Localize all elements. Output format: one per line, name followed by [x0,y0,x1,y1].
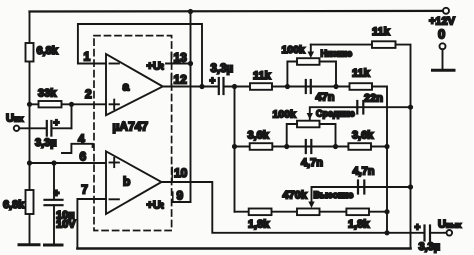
wire: 33k row to op-amp a pin 2 [30,103,107,105]
svg-text:9: 9 [177,189,184,203]
svg-text:+: + [54,118,60,129]
wiper arrow bass [310,45,312,53]
wire: treble row (bottom) [235,211,388,213]
svg-text:10: 10 [174,166,188,180]
node: 33k row / bias divider [27,102,32,107]
capacitor 3,3µ input (electrolytic) [46,121,48,136]
svg-text:3,3µ: 3,3µ [419,241,441,253]
svg-text:22n: 22n [364,93,383,105]
wire: op-amp b output down to output row [162,182,425,233]
wire: pot right leg [320,62,337,87]
node: input cap / 33k / pin 2 junction [69,102,74,107]
svg-text:12: 12 [174,73,188,87]
wire: cap to bass row [224,86,251,88]
node: left rail top [232,84,237,89]
svg-text:+Ut: +Ut [147,61,164,73]
resistor 11k (bass right) [350,83,373,90]
node: bass right [333,84,338,89]
svg-text:+Ut: +Ut [147,200,164,212]
capacitor 3,3µ coupling (op-amp a output) [218,78,220,94]
svg-text:470k: 470k [283,190,308,202]
wire: +12V top supply rail [30,10,444,13]
wire: 3,3µ cap to junction [51,127,71,129]
svg-text:3,6k: 3,6k [248,130,270,142]
capacitor 10µ 10V (electrolytic) [45,199,63,201]
node: 10µ branch [51,160,56,165]
resistor 6,8k lower [26,190,34,214]
svg-text:+: + [54,189,60,200]
resistor 11k (wiper top) [372,41,396,48]
svg-text:7: 7 [81,183,88,197]
svg-text:a: a [123,80,130,94]
node: bottom row joins feedback bus [384,209,389,214]
svg-text:1,8k: 1,8k [248,219,270,231]
svg-text:3,3µ: 3,3µ [35,137,57,149]
svg-text:100k: 100k [273,109,297,121]
wire: inverting-input bottom rail [77,247,410,250]
node: +Ut a junction [188,61,193,66]
capacitor 22n [356,101,358,114]
wire: bass wiper row [311,44,372,46]
svg-text:4,7n: 4,7n [301,157,323,169]
capacitor 4,7n (mid) [305,140,307,153]
wire: treble wiper row (4,7n) [312,187,411,202]
wire: 10µ cap to ground [53,205,55,244]
resistor 1,8k (left) [249,209,272,216]
svg-text:b: b [123,175,130,189]
wire: +Ut supply vertical [190,12,192,203]
capacitor 47n [305,80,307,93]
resistor 33k [39,101,62,107]
IC µA747 dashed outline [94,36,172,231]
terminal Uвых [447,230,453,236]
potentiometer 100k bass [297,58,320,65]
svg-text:+: + [415,223,421,234]
wire: bias node to op-amp b pin 6 [30,162,107,164]
capacitor 3,3µ output (electrolytic) [423,226,425,241]
potentiometer 100k mid [297,121,320,128]
wire: pot left leg [287,62,297,87]
resistor 1,8k (right) [346,209,369,216]
svg-text:2: 2 [85,87,92,101]
ground (lower 6,8k) [19,243,39,246]
wiper arrow mid [307,113,313,120]
node: mid left [284,144,289,149]
wire: node down to 10µ cap [53,163,55,199]
node: bias node (pin 6 row) [27,160,32,165]
op-amp U1b [106,151,162,214]
svg-text:10V: 10V [56,219,76,231]
wire: +Ut a to supply line [166,63,191,65]
svg-text:11k: 11k [253,70,272,82]
node: mid right [333,144,338,149]
wire: op-amp a output row [163,86,219,88]
wire: mid wiper row (22n) [310,107,411,119]
node: treble row joins wiper bus [408,184,413,189]
svg-text:33k: 33k [38,88,57,100]
wire: pin 9 to supply [173,201,191,203]
svg-text:11k: 11k [372,26,391,38]
wire: pin 1 feedback loop [78,24,202,87]
node: supply taps top rail [188,9,193,14]
ground (10µ) [45,244,63,247]
svg-text:4,7n: 4,7n [353,166,375,178]
svg-text:1: 1 [84,50,91,64]
wire: input terminal to 3,3µ cap [19,127,46,129]
node: feedback joins output a [199,84,204,89]
wire: bass row [272,86,350,88]
node: feedback bus joins output row [384,230,389,235]
svg-text:3,3µ: 3,3µ [211,63,234,75]
svg-text:Низкие: Низкие [321,49,353,59]
wire: network left rail [234,87,236,212]
node: mid row left rail [232,144,237,149]
wiper arrow treble [308,202,314,209]
svg-text:Uвых: Uвых [438,219,462,231]
svg-text:3,6k: 3,6k [352,130,374,142]
svg-text:µA747: µA747 [113,120,149,134]
svg-text:6: 6 [80,150,87,164]
svg-text:6,8k: 6,8k [37,45,59,57]
wire: cap to output terminal [430,232,447,234]
resistor 11k (bass left) [250,83,272,90]
wire: pin 7 to inverting bus [77,199,106,249]
svg-text:1,8k: 1,8k [348,219,370,231]
svg-text:0: 0 [438,27,445,42]
op-amp U1a [106,54,163,115]
potentiometer 470k treble [297,209,320,216]
svg-text:6,8k: 6,8k [3,199,25,211]
wire: junction down to input cap [71,104,73,128]
svg-text:100k: 100k [282,44,306,56]
resistor 6,8k upper [26,43,34,62]
svg-text:47n: 47n [316,92,335,104]
svg-text:13: 13 [174,51,188,65]
wire: mid row [235,146,388,148]
wire: left bias rail [29,12,31,245]
svg-text:Средние: Средние [316,109,355,119]
svg-text:11k: 11k [352,68,371,80]
wire: bass row right to feedback bus [372,87,387,233]
node: mid row joins feedback bus [384,144,389,149]
svg-text:+: + [210,76,216,87]
node: 22n row joins wiper bus [408,105,413,110]
wire: pot right leg [320,124,336,147]
resistor 3,6k (mid right) [348,143,371,150]
wire: 11k to wiper bus [396,45,411,249]
capacitor 4,7n (treble) [357,181,359,194]
wire: pot left leg [287,124,297,147]
svg-text:Высокие: Высокие [314,190,354,200]
node: bass left [285,84,290,89]
terminal +12V [443,8,449,14]
resistor 3,6k (mid left) [250,143,273,150]
svg-text:Uвх: Uвх [6,113,24,125]
wire: 0 terminal to ground [442,49,444,69]
ground (0 terminal) [433,69,455,72]
